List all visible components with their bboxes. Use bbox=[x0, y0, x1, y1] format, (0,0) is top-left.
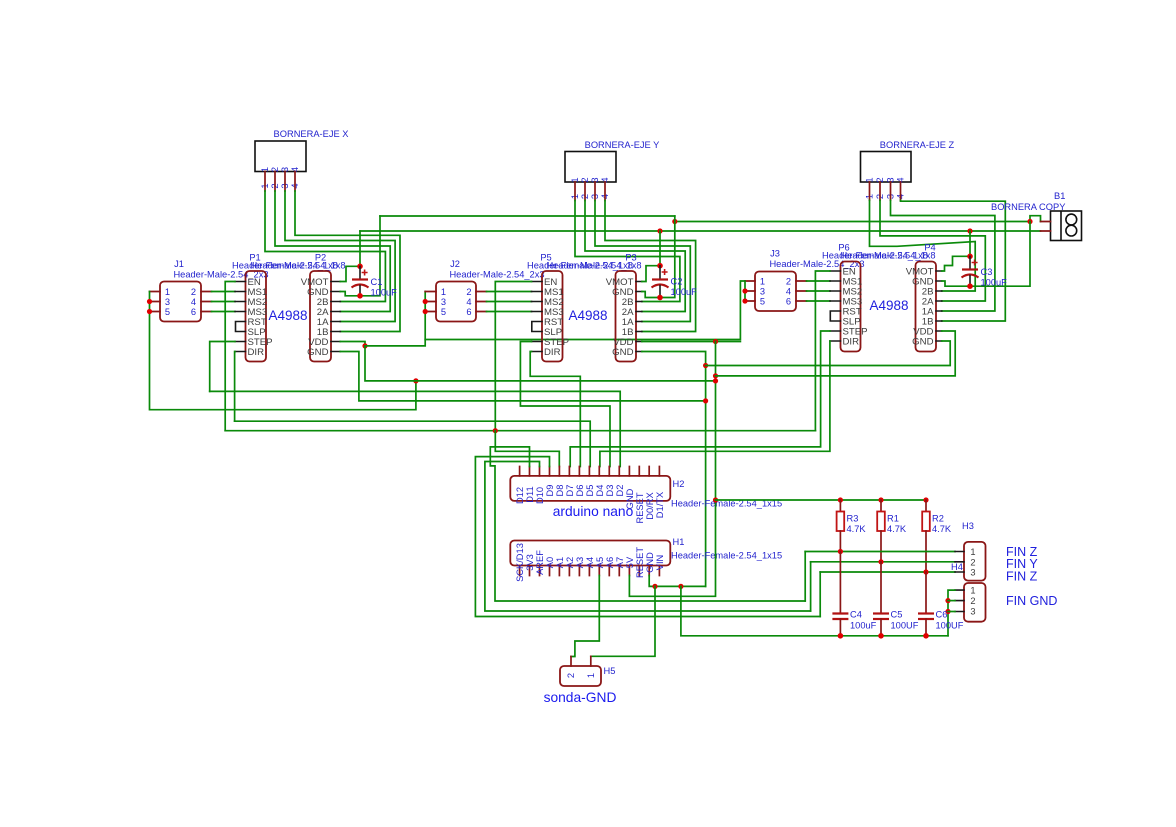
svg-text:R1: R1 bbox=[887, 514, 899, 524]
svg-text:3: 3 bbox=[760, 287, 765, 297]
svg-text:B1: B1 bbox=[1054, 191, 1065, 201]
wire J3 pin6 to MS3 bbox=[807, 300, 831, 302]
capacitor C5 100UF bbox=[873, 562, 919, 639]
wire C3 VMOT riser bbox=[969, 231, 971, 256]
svg-text:C5: C5 bbox=[891, 610, 903, 620]
junction 5V at R trunk bbox=[713, 497, 718, 502]
wire C1 VMOT riser bbox=[359, 231, 361, 266]
svg-text:R3: R3 bbox=[847, 514, 859, 524]
svg-text:FIN GND: FIN GND bbox=[1006, 594, 1057, 608]
wire H1 5V down to VDD riser bbox=[629, 500, 715, 596]
connector H5 sonda-GND bbox=[560, 656, 615, 686]
svg-text:3: 3 bbox=[165, 297, 170, 307]
svg-text:6: 6 bbox=[786, 297, 791, 307]
svg-text:1: 1 bbox=[586, 673, 596, 678]
svg-text:3: 3 bbox=[441, 297, 446, 307]
wire P2 VDD to 5V net bbox=[340, 342, 365, 346]
svg-text:D3: D3 bbox=[605, 485, 615, 497]
svg-text:RESET: RESET bbox=[635, 492, 645, 523]
svg-text:H2: H2 bbox=[673, 479, 685, 489]
wire H4 pin2 stub bbox=[948, 600, 955, 602]
wire H4 pin3 stub bbox=[948, 611, 955, 613]
header P6 (A4988 left) bbox=[822, 243, 928, 352]
svg-text:DIR: DIR bbox=[248, 347, 265, 358]
svg-text:H5: H5 bbox=[604, 666, 616, 676]
resistor R3 4.7K bbox=[837, 497, 867, 551]
jumper P6 RST-SLP bbox=[830, 311, 840, 321]
svg-text:SCK/D13: SCK/D13 bbox=[515, 543, 525, 582]
svg-text:D6: D6 bbox=[575, 485, 585, 497]
svg-text:4: 4 bbox=[191, 297, 196, 307]
svg-text:C6: C6 bbox=[936, 610, 948, 620]
wire FIN row1 vertical bbox=[804, 552, 806, 602]
svg-text:A3: A3 bbox=[575, 557, 585, 568]
wire P3 GND8 to GND vertical bbox=[642, 352, 706, 587]
wire VDD trunk down-right bbox=[365, 346, 716, 381]
svg-text:A4988: A4988 bbox=[869, 298, 908, 313]
wire FIN row2 vertical bbox=[810, 562, 812, 611]
svg-text:C1: C1 bbox=[371, 277, 383, 287]
wire GND trunk top bbox=[380, 215, 675, 217]
wire P4 GND to C3 bottom bbox=[942, 281, 970, 286]
wire P4 VDD left to VDD vertical bbox=[716, 331, 956, 376]
header J3 bbox=[745, 249, 865, 312]
wire J3 left pins bbox=[744, 281, 746, 301]
svg-text:DIR: DIR bbox=[843, 336, 860, 347]
svg-text:J1: J1 bbox=[174, 259, 184, 269]
junction EN trunk at P5 bbox=[493, 428, 498, 433]
svg-text:R2: R2 bbox=[932, 514, 944, 524]
svg-text:J2: J2 bbox=[450, 259, 460, 269]
svg-text:A6: A6 bbox=[605, 557, 615, 568]
wire P3 VMOT to C2 bbox=[642, 266, 660, 282]
wire J2 pin2 to MS1 bbox=[487, 291, 532, 293]
svg-text:RESET: RESET bbox=[635, 547, 645, 578]
svg-text:1: 1 bbox=[760, 277, 765, 287]
svg-text:D1/TX: D1/TX bbox=[655, 492, 665, 518]
wire bornera Z pin4 to P4 1B bbox=[901, 200, 1006, 321]
wire B1 GND down to C3 bbox=[970, 222, 1030, 287]
wire GND trunk right with jog to B1 bbox=[675, 216, 1041, 222]
junction VDD P4 line bbox=[713, 373, 718, 378]
wire P6 EN down bbox=[815, 271, 830, 431]
wire VDD to J2 bbox=[365, 292, 425, 346]
wire EN branch to D8 bbox=[495, 431, 559, 467]
wire P6 STEP to D7 bbox=[570, 331, 830, 467]
wire H4 common bbox=[948, 590, 955, 636]
svg-text:C3: C3 bbox=[981, 267, 993, 277]
header J1 bbox=[150, 259, 269, 322]
svg-text:A4988: A4988 bbox=[268, 308, 307, 323]
junction GND at trunk bbox=[703, 398, 708, 403]
svg-text:A7: A7 bbox=[615, 557, 625, 568]
junction J3 pin3 bbox=[742, 288, 747, 293]
wire J1 pin2 to MS1 bbox=[212, 291, 236, 293]
svg-text:5: 5 bbox=[165, 307, 170, 317]
svg-text:2: 2 bbox=[970, 596, 975, 606]
wire P1 DIR down bbox=[234, 352, 236, 422]
svg-text:C4: C4 bbox=[850, 610, 862, 620]
wire bornera X pin1 to P2 2B bbox=[265, 191, 385, 302]
svg-text:J3: J3 bbox=[770, 249, 780, 259]
wire bornera Y pin3 to P3 1A bbox=[595, 201, 690, 322]
capacitor C3 100uF bbox=[962, 253, 1008, 289]
svg-text:4.7K: 4.7K bbox=[847, 524, 867, 534]
junction J1 pin5 bbox=[147, 309, 152, 314]
svg-text:D4: D4 bbox=[595, 485, 605, 497]
wire bornera X pin4 to P2 1B bbox=[295, 191, 400, 332]
svg-text:Header-Female-2.54_1x15: Header-Female-2.54_1x15 bbox=[671, 551, 782, 561]
capacitor C6 100UF bbox=[918, 572, 964, 639]
svg-text:A5: A5 bbox=[595, 557, 605, 568]
wire P5 STEP to D3 bbox=[520, 342, 610, 467]
svg-text:BORNERA-EJE Z: BORNERA-EJE Z bbox=[880, 140, 955, 150]
junction VMOT at C3 bbox=[967, 228, 972, 233]
junction GND C-rail branch bbox=[678, 584, 683, 589]
wire P5 DIR to D6 bbox=[530, 352, 580, 467]
wire VMOT trunk bbox=[360, 230, 1041, 232]
svg-text:BORNERA-EJE Y: BORNERA-EJE Y bbox=[585, 140, 660, 150]
svg-text:Header-Male-2.54_1x8: Header-Male-2.54_1x8 bbox=[546, 261, 641, 271]
svg-text:FIN Z: FIN Z bbox=[1006, 570, 1038, 584]
svg-text:A2: A2 bbox=[565, 557, 575, 568]
svg-text:6: 6 bbox=[466, 307, 471, 317]
header P1 (A4988 left) bbox=[232, 253, 338, 362]
svg-text:D12: D12 bbox=[515, 487, 525, 504]
svg-text:GND: GND bbox=[612, 347, 633, 358]
svg-text:4: 4 bbox=[786, 287, 791, 297]
junction VDD driver1 bbox=[362, 343, 367, 348]
wire bornera Z pin2 to P4 2A bbox=[880, 200, 985, 301]
svg-text:D0/RX: D0/RX bbox=[645, 492, 655, 519]
wire P3 GND to C2 bottom bbox=[642, 292, 660, 298]
header H2 arduino top bbox=[510, 467, 782, 524]
wire H1 GND line bbox=[649, 576, 705, 587]
wire bornera Z pin3 to P4 1A bbox=[891, 200, 995, 311]
svg-text:5: 5 bbox=[441, 307, 446, 317]
svg-text:1: 1 bbox=[970, 547, 975, 557]
svg-text:VIN: VIN bbox=[655, 555, 665, 571]
svg-text:H4: H4 bbox=[951, 562, 963, 572]
junction J2 pin5 bbox=[423, 309, 428, 314]
svg-text:BORNERA-EJE X: BORNERA-EJE X bbox=[274, 129, 349, 139]
header P3 (A4988 right) bbox=[546, 253, 641, 362]
wire C1 GND riser bbox=[360, 216, 380, 296]
junction VDD driver2 bbox=[713, 339, 718, 344]
resistor R1 4.7K bbox=[877, 497, 907, 561]
wire FIN row3 vertical bbox=[819, 572, 821, 617]
svg-text:D11: D11 bbox=[525, 486, 535, 502]
junction J2 pin3 bbox=[423, 299, 428, 304]
wire J1 left pins common bbox=[150, 292, 416, 410]
connector H4 bbox=[951, 562, 986, 622]
svg-text:D9: D9 bbox=[545, 485, 555, 497]
wire J3 pin4 to MS2 bbox=[807, 290, 831, 292]
svg-text:2: 2 bbox=[466, 287, 471, 297]
svg-text:100uF: 100uF bbox=[981, 278, 1008, 288]
wire J1 pin6 to MS3 bbox=[212, 311, 236, 313]
wire P4 VMOT to C3 staircase bbox=[942, 256, 970, 271]
header J2 bbox=[425, 259, 544, 322]
capacitor C1 100uF bbox=[352, 264, 398, 299]
junction GND trunk at C2 bbox=[672, 219, 677, 224]
svg-text:D2: D2 bbox=[615, 485, 625, 497]
wire VDD long line to J3 bbox=[425, 281, 745, 340]
junction R3 bottom bbox=[838, 549, 843, 554]
svg-text:3: 3 bbox=[970, 607, 975, 617]
svg-text:Header-Male-2.54_1x8: Header-Male-2.54_1x8 bbox=[250, 261, 345, 271]
svg-text:GND: GND bbox=[307, 347, 328, 358]
wire J2 pin6 to MS3 bbox=[487, 311, 532, 313]
svg-text:100uF: 100uF bbox=[850, 621, 877, 631]
svg-text:4.7K: 4.7K bbox=[887, 524, 907, 534]
svg-text:4: 4 bbox=[466, 297, 471, 307]
wire J3 pin2 to MS1 bbox=[807, 280, 831, 282]
jumper P5 RST-SLP bbox=[532, 322, 542, 332]
svg-text:A4: A4 bbox=[585, 557, 595, 568]
wire P3 VDD bbox=[642, 341, 741, 343]
wire P5 EN down bbox=[495, 282, 531, 431]
junction R1 bottom bbox=[878, 559, 883, 564]
svg-text:3V3: 3V3 bbox=[525, 554, 535, 571]
wire R pullup trunk bbox=[716, 499, 927, 501]
wire P1 EN down bbox=[225, 282, 235, 431]
svg-text:3: 3 bbox=[970, 568, 975, 578]
wire P2 GND8 trunk bbox=[340, 352, 705, 401]
junction H4 pin3 bbox=[945, 609, 950, 614]
svg-text:100UF: 100UF bbox=[936, 621, 964, 631]
svg-text:H1: H1 bbox=[673, 537, 685, 547]
wire bornera Y pin2 to P3 2A bbox=[585, 201, 685, 312]
svg-text:100UF: 100UF bbox=[891, 621, 919, 631]
wire P2 GND to C1 bottom bbox=[340, 292, 360, 296]
wire bornera Y pin1 to P3 2B bbox=[575, 201, 680, 302]
wire P4 GND8 left to GND vertical bbox=[706, 341, 951, 366]
svg-text:Header-Male-2.54_1x8: Header-Male-2.54_1x8 bbox=[840, 251, 935, 261]
svg-text:2: 2 bbox=[566, 673, 576, 678]
wire GND to H5 pin1 bbox=[591, 586, 655, 656]
junction VMOT at C2 bbox=[657, 228, 662, 233]
svg-text:1: 1 bbox=[970, 585, 975, 595]
wire FIN row3 to H3 pin3 bbox=[820, 571, 955, 573]
wire EN trunk bbox=[225, 430, 815, 432]
svg-text:sonda-GND: sonda-GND bbox=[544, 690, 617, 705]
svg-text:GND: GND bbox=[645, 552, 655, 573]
wire bornera X pin3 to P2 1A bbox=[285, 191, 395, 322]
svg-text:100uF: 100uF bbox=[371, 288, 398, 298]
connector H3 bbox=[955, 521, 986, 581]
svg-text:C2: C2 bbox=[671, 277, 683, 287]
wire C2 GND riser bbox=[660, 216, 675, 298]
wire bornera X pin2 to P2 2A bbox=[275, 191, 390, 312]
wire A5 to H5 pin2 bbox=[571, 576, 599, 657]
wire P1 STEP down bbox=[210, 342, 235, 392]
junction VDD trunk end bbox=[713, 378, 718, 383]
svg-text:100uF: 100uF bbox=[671, 287, 698, 297]
svg-text:A4988: A4988 bbox=[568, 308, 607, 323]
svg-text:AREF: AREF bbox=[535, 550, 545, 575]
svg-text:4.7K: 4.7K bbox=[932, 524, 952, 534]
wire D11 to FIN row1 bbox=[490, 447, 805, 601]
wire P2 VMOT to C1 bbox=[340, 266, 360, 281]
connector BORNERA-EJE Y bbox=[565, 140, 659, 201]
wire C2 VMOT riser bbox=[659, 231, 661, 266]
wire P6 DIR to D4 bbox=[600, 341, 830, 467]
junction GND at P4 branch bbox=[703, 363, 708, 368]
svg-text:6: 6 bbox=[191, 307, 196, 317]
junction H4 pin2 bbox=[945, 598, 950, 603]
resistor R2 4.7K bbox=[922, 497, 952, 572]
svg-text:D7: D7 bbox=[565, 485, 575, 497]
wire STEP-P1 trunk to D2 bbox=[210, 391, 621, 466]
header P2 (A4988 right) bbox=[250, 253, 345, 362]
svg-text:1: 1 bbox=[165, 287, 170, 297]
header H1 arduino bottom bbox=[510, 537, 782, 582]
junction J3 pin5 bbox=[742, 298, 747, 303]
svg-text:2: 2 bbox=[191, 287, 196, 297]
svg-text:H3: H3 bbox=[962, 521, 974, 531]
svg-text:2: 2 bbox=[786, 277, 791, 287]
svg-text:Header-Male-2.54_2x3: Header-Male-2.54_2x3 bbox=[449, 270, 544, 280]
svg-text:DIR: DIR bbox=[544, 347, 561, 358]
wire GND to capacitor rail bbox=[681, 586, 948, 635]
svg-text:2: 2 bbox=[970, 557, 975, 567]
connector BORNERA-EJE Z bbox=[861, 140, 955, 200]
svg-text:GND: GND bbox=[912, 336, 933, 347]
svg-text:D5: D5 bbox=[585, 485, 595, 497]
svg-text:D10: D10 bbox=[535, 487, 545, 504]
wire VDD main vertical bbox=[715, 342, 717, 501]
svg-text:A1: A1 bbox=[555, 557, 565, 568]
wire D10 to FIN row2 bbox=[485, 462, 811, 612]
svg-text:A0: A0 bbox=[545, 557, 555, 568]
header P5 (A4988 left) bbox=[527, 253, 633, 362]
wire J1 pin4 to MS2 bbox=[212, 301, 236, 303]
junction VDD trunk branch bbox=[413, 378, 418, 383]
capacitor C2 100uF bbox=[652, 263, 698, 300]
wire bornera Y pin4 to P3 1B bbox=[605, 201, 696, 332]
connector B1 BORNERA COPY bbox=[991, 191, 1082, 241]
wire FIN row2 to H3 pin2 bbox=[811, 561, 955, 563]
svg-text:5V: 5V bbox=[625, 556, 635, 568]
junction R2 bottom bbox=[923, 569, 928, 574]
capacitor C4 100uF bbox=[832, 552, 876, 639]
svg-text:1: 1 bbox=[441, 287, 446, 297]
svg-text:5: 5 bbox=[760, 297, 765, 307]
junction GND trunk at B1 bbox=[1027, 219, 1032, 224]
junction GND H5 branch bbox=[652, 584, 657, 589]
jumper P1 RST-SLP bbox=[236, 322, 246, 332]
wire DIR-P1 trunk to D5 bbox=[235, 421, 591, 466]
wire bornera Z pin1 to P4 2B (with diagonal) bbox=[870, 200, 976, 291]
connector BORNERA-EJE X bbox=[255, 129, 348, 191]
svg-text:arduino nano: arduino nano bbox=[553, 504, 634, 519]
wire J2 pin4 to MS2 bbox=[487, 301, 532, 303]
junction J1 pin3 bbox=[147, 299, 152, 304]
wire D9 to FIN row3 bbox=[475, 457, 820, 617]
svg-text:D8: D8 bbox=[555, 485, 565, 497]
header P4 (A4988 right) bbox=[840, 243, 941, 352]
wire FIN row1 to H3 pin1 bbox=[805, 551, 955, 553]
